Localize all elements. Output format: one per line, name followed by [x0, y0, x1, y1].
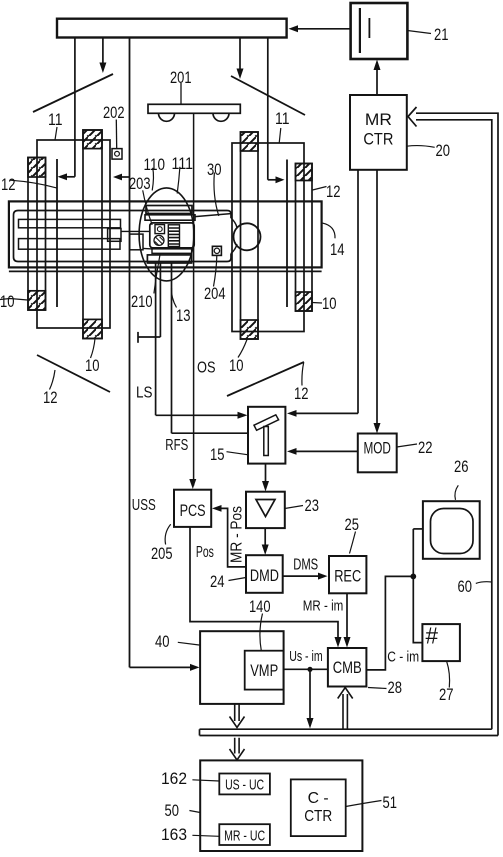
svg-text:110: 110	[144, 155, 166, 174]
svg-text:27: 27	[439, 685, 454, 704]
svg-text:VMP: VMP	[250, 662, 278, 680]
svg-text:203: 203	[129, 174, 151, 193]
svg-text:#: #	[426, 623, 439, 649]
svg-text:10: 10	[0, 292, 15, 311]
svg-text:MR - im: MR - im	[303, 598, 344, 615]
svg-text:Pos: Pos	[196, 544, 214, 561]
svg-text:12: 12	[326, 182, 341, 201]
svg-text:USS: USS	[132, 497, 156, 514]
svg-text:MOD: MOD	[363, 440, 391, 458]
svg-text:205: 205	[151, 544, 173, 563]
svg-text:US - UC: US - UC	[225, 778, 264, 794]
svg-text:MR: MR	[365, 110, 392, 129]
svg-text:202: 202	[103, 103, 125, 122]
svg-text:10: 10	[322, 294, 337, 313]
svg-text:CTR: CTR	[304, 808, 332, 825]
svg-text:Us - im: Us - im	[289, 648, 323, 665]
svg-text:30: 30	[207, 160, 222, 179]
svg-text:14: 14	[330, 240, 345, 259]
svg-text:11: 11	[275, 109, 290, 128]
svg-text:11: 11	[48, 110, 63, 129]
svg-text:LS: LS	[136, 385, 153, 402]
svg-text:13: 13	[176, 306, 191, 325]
svg-text:12: 12	[43, 388, 58, 407]
svg-text:REC: REC	[334, 568, 361, 586]
svg-text:MR - UC: MR - UC	[224, 828, 265, 844]
svg-text:12: 12	[294, 384, 309, 403]
svg-text:23: 23	[305, 496, 320, 515]
svg-text:21: 21	[434, 25, 449, 44]
svg-text:210: 210	[131, 292, 153, 311]
svg-text:DMD: DMD	[250, 567, 279, 585]
svg-text:25: 25	[345, 515, 360, 534]
svg-text:10: 10	[85, 356, 100, 375]
svg-text:26: 26	[454, 457, 469, 476]
svg-text:204: 204	[204, 284, 226, 303]
svg-text:140: 140	[249, 597, 271, 616]
svg-text:CTR: CTR	[363, 130, 393, 149]
svg-text:OS: OS	[197, 360, 216, 377]
svg-text:201: 201	[170, 68, 192, 87]
svg-text:20: 20	[436, 141, 451, 160]
svg-text:111: 111	[172, 154, 194, 173]
svg-text:12: 12	[1, 175, 16, 194]
svg-text:22: 22	[418, 438, 433, 457]
svg-text:MR - Pos: MR - Pos	[229, 506, 246, 563]
svg-text:40: 40	[155, 632, 170, 651]
svg-text:CMB: CMB	[333, 659, 362, 677]
svg-text:162: 162	[161, 769, 187, 788]
svg-text:10: 10	[229, 356, 244, 375]
svg-text:DMS: DMS	[293, 557, 318, 574]
svg-text:RFS: RFS	[165, 437, 188, 454]
svg-text:50: 50	[165, 801, 180, 820]
svg-text:15: 15	[210, 445, 225, 464]
svg-text:60: 60	[458, 577, 473, 596]
svg-text:51: 51	[383, 793, 398, 812]
svg-text:163: 163	[161, 825, 187, 844]
svg-text:C - im: C - im	[387, 649, 419, 666]
svg-text:PCS: PCS	[180, 502, 206, 520]
svg-text:24: 24	[210, 572, 225, 591]
svg-text:C -: C -	[308, 790, 329, 807]
svg-text:28: 28	[388, 678, 403, 697]
